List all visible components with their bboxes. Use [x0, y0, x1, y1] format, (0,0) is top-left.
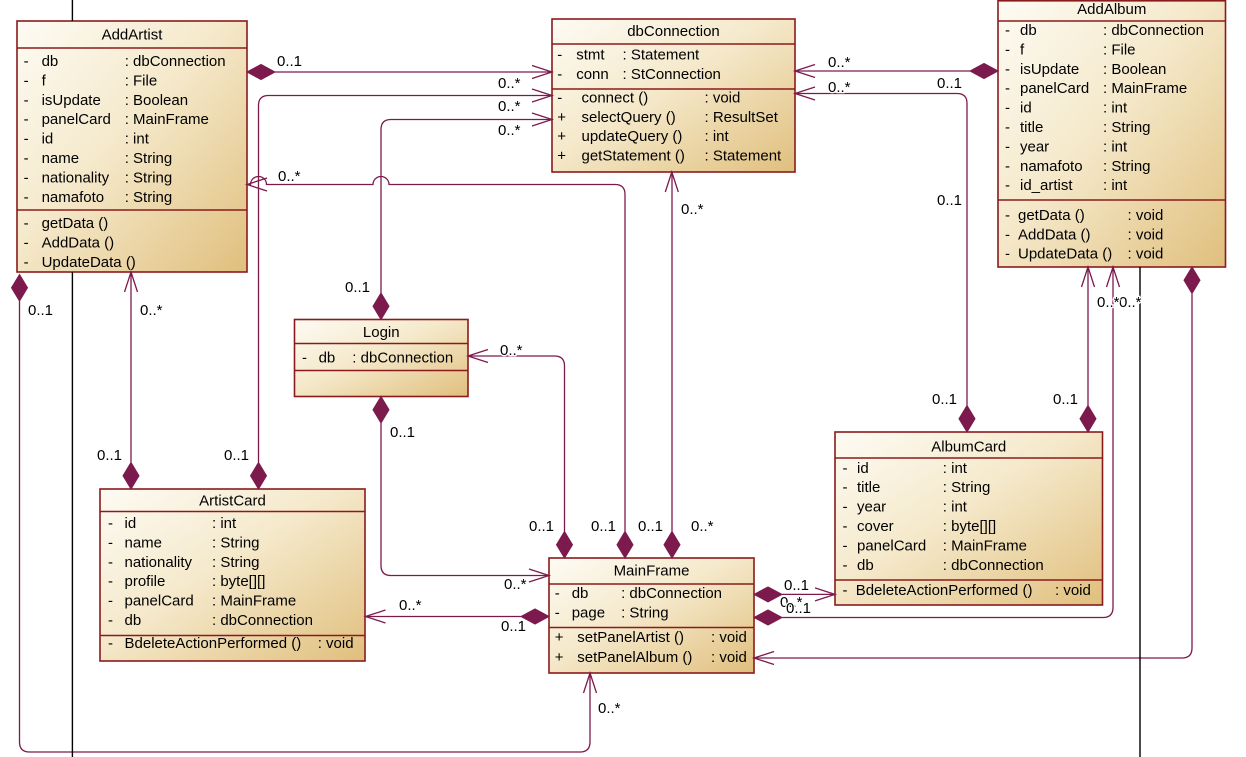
- svg-text:+: +: [555, 649, 564, 666]
- svg-text:: MainFrame: : MainFrame: [943, 537, 1027, 554]
- svg-text:: String: : String: [125, 150, 173, 167]
- svg-text:: Statement: : Statement: [623, 47, 701, 64]
- svg-text:id: id: [1020, 100, 1032, 117]
- svg-text:: void: : void: [711, 649, 747, 666]
- svg-text:0..1: 0..1: [784, 577, 809, 594]
- svg-text:connect (): connect (): [582, 90, 649, 107]
- svg-text:AlbumCard: AlbumCard: [931, 439, 1006, 456]
- svg-text:-: -: [557, 66, 562, 83]
- svg-text:0..1: 0..1: [277, 53, 302, 70]
- svg-text:0..*: 0..*: [498, 122, 521, 139]
- svg-text:namafoto: namafoto: [42, 189, 105, 206]
- svg-text:nationality: nationality: [42, 169, 110, 186]
- svg-text:0..1: 0..1: [591, 518, 616, 535]
- svg-text:-: -: [1005, 177, 1010, 194]
- svg-text:: int: : int: [1103, 177, 1128, 194]
- svg-text:: int: : int: [943, 499, 968, 516]
- svg-text:: byte[][]: : byte[][]: [212, 573, 265, 590]
- svg-text:: int: : int: [125, 131, 150, 148]
- svg-text:-: -: [108, 554, 113, 571]
- svg-text:-: -: [843, 460, 848, 477]
- svg-text:: void: : void: [1128, 246, 1164, 263]
- svg-text:year: year: [1020, 138, 1049, 155]
- svg-text:+: +: [557, 128, 566, 145]
- svg-text:: dbConnection: : dbConnection: [1103, 22, 1204, 39]
- svg-text:: int: : int: [1103, 100, 1128, 117]
- svg-text:: ResultSet: : ResultSet: [705, 109, 779, 126]
- svg-text:-: -: [24, 169, 29, 186]
- svg-text:updateQuery (): updateQuery (): [582, 128, 683, 145]
- svg-text:: String: : String: [943, 479, 991, 496]
- svg-text:-: -: [1005, 138, 1010, 155]
- svg-text:0..*: 0..*: [681, 201, 704, 218]
- svg-text:year: year: [857, 499, 886, 516]
- svg-text:-: -: [843, 479, 848, 496]
- svg-text:-: -: [1005, 246, 1010, 263]
- svg-text:0..*: 0..*: [504, 576, 527, 593]
- svg-text:: void: : void: [318, 635, 354, 652]
- svg-text:setPanelArtist (): setPanelArtist (): [577, 629, 684, 646]
- svg-text:: String: : String: [125, 169, 173, 186]
- svg-text:panelCard: panelCard: [1020, 80, 1089, 97]
- svg-text:0..*: 0..*: [498, 98, 521, 115]
- svg-text:0..1: 0..1: [390, 424, 415, 441]
- svg-text:: byte[][]: : byte[][]: [943, 518, 996, 535]
- svg-text:: dbConnection: : dbConnection: [943, 557, 1044, 574]
- svg-text:+: +: [557, 147, 566, 164]
- svg-text:: MainFrame: : MainFrame: [125, 111, 209, 128]
- svg-text:-: -: [24, 234, 29, 251]
- svg-text:0..1: 0..1: [937, 192, 962, 209]
- svg-text:: File: : File: [125, 72, 158, 89]
- svg-text:-: -: [1005, 119, 1010, 136]
- svg-text:getData (): getData (): [1018, 207, 1085, 224]
- svg-text:: void: : void: [1128, 226, 1164, 243]
- svg-text:: void: : void: [1128, 207, 1164, 224]
- svg-text:: File: : File: [1103, 41, 1136, 58]
- svg-text:: Boolean: : Boolean: [1103, 61, 1166, 78]
- svg-text:name: name: [125, 534, 163, 551]
- svg-text:-: -: [557, 90, 562, 107]
- svg-text:-: -: [1005, 22, 1010, 39]
- svg-text:: int: : int: [212, 515, 237, 532]
- svg-text:title: title: [1020, 119, 1043, 136]
- svg-text:-: -: [108, 534, 113, 551]
- svg-text:-: -: [24, 215, 29, 232]
- svg-text:Login: Login: [363, 324, 400, 341]
- svg-text:-: -: [843, 499, 848, 516]
- svg-text:+: +: [555, 629, 564, 646]
- svg-text:db: db: [42, 53, 59, 70]
- svg-text:-: -: [843, 518, 848, 535]
- svg-text:: String: : String: [212, 554, 260, 571]
- svg-text:namafoto: namafoto: [1020, 158, 1083, 175]
- svg-text:0..1: 0..1: [1053, 391, 1078, 408]
- svg-text:-: -: [1005, 226, 1010, 243]
- svg-text:-: -: [843, 582, 848, 599]
- svg-text:0..1: 0..1: [529, 518, 554, 535]
- svg-text:0..*: 0..*: [500, 342, 523, 359]
- svg-text:ArtistCard: ArtistCard: [199, 492, 266, 509]
- svg-text:0..1: 0..1: [786, 600, 811, 617]
- svg-text:db: db: [125, 612, 142, 629]
- svg-text:-: -: [24, 92, 29, 109]
- svg-text:0..*: 0..*: [399, 597, 422, 614]
- svg-text:+: +: [557, 109, 566, 126]
- svg-text:0..1: 0..1: [224, 447, 249, 464]
- svg-text:: StConnection: : StConnection: [623, 66, 721, 83]
- svg-text:0..*: 0..*: [828, 54, 851, 71]
- svg-text:-: -: [1005, 100, 1010, 117]
- svg-text:selectQuery (): selectQuery (): [582, 109, 676, 126]
- svg-text:0..1: 0..1: [28, 302, 53, 319]
- svg-text:panelCard: panelCard: [857, 537, 926, 554]
- svg-text:-: -: [1005, 207, 1010, 224]
- svg-text:id: id: [125, 515, 137, 532]
- svg-text:0..*: 0..*: [598, 700, 621, 717]
- svg-text:: Boolean: : Boolean: [125, 92, 188, 109]
- svg-text:-: -: [108, 612, 113, 629]
- svg-text:-: -: [302, 350, 307, 367]
- svg-text:AddData (): AddData (): [42, 234, 115, 251]
- svg-text:0..*: 0..*: [1119, 294, 1142, 311]
- svg-text:-: -: [24, 53, 29, 70]
- svg-text:0..*: 0..*: [278, 168, 301, 185]
- svg-text:-: -: [557, 47, 562, 64]
- svg-text:-: -: [555, 585, 560, 602]
- svg-text:-: -: [108, 573, 113, 590]
- svg-text:: MainFrame: : MainFrame: [212, 593, 296, 610]
- svg-text:-: -: [1005, 61, 1010, 78]
- svg-text:db: db: [319, 350, 336, 367]
- svg-text:UpdateData (): UpdateData (): [1018, 246, 1112, 263]
- svg-text:: void: : void: [711, 629, 747, 646]
- svg-text:BdeleteActionPerformed (): BdeleteActionPerformed (): [856, 582, 1033, 599]
- svg-text:id: id: [42, 131, 54, 148]
- svg-text:: String: : String: [621, 605, 669, 622]
- svg-text:AddArtist: AddArtist: [102, 26, 164, 43]
- svg-text:0..*: 0..*: [140, 302, 163, 319]
- svg-text:BdeleteActionPerformed (): BdeleteActionPerformed (): [125, 635, 302, 652]
- svg-text:: void: : void: [1055, 582, 1091, 599]
- svg-text:-: -: [843, 537, 848, 554]
- svg-text:0..*: 0..*: [498, 75, 521, 92]
- svg-text:profile: profile: [125, 573, 166, 590]
- svg-text:getStatement (): getStatement (): [582, 147, 685, 164]
- svg-text:0..1: 0..1: [97, 447, 122, 464]
- svg-text:MainFrame: MainFrame: [614, 562, 690, 579]
- svg-text:-: -: [1005, 158, 1010, 175]
- svg-text:db: db: [572, 585, 589, 602]
- svg-text:-: -: [24, 189, 29, 206]
- svg-text:: int: : int: [943, 460, 968, 477]
- svg-text:setPanelAlbum (): setPanelAlbum (): [577, 649, 692, 666]
- svg-text:: dbConnection: : dbConnection: [212, 612, 313, 629]
- svg-text:: dbConnection: : dbConnection: [621, 585, 722, 602]
- svg-text:title: title: [857, 479, 880, 496]
- svg-text:0..1: 0..1: [638, 518, 663, 535]
- svg-text:dbConnection: dbConnection: [627, 23, 720, 40]
- svg-text:0..*: 0..*: [1097, 294, 1120, 311]
- svg-text:0..*: 0..*: [828, 79, 851, 96]
- svg-text:0..*: 0..*: [691, 518, 714, 535]
- svg-text:: String: : String: [1103, 119, 1151, 136]
- svg-text:AddAlbum: AddAlbum: [1077, 1, 1146, 18]
- svg-text:0..1: 0..1: [501, 618, 526, 635]
- svg-text:-: -: [24, 254, 29, 271]
- svg-text:-: -: [24, 131, 29, 148]
- svg-text:db: db: [857, 557, 874, 574]
- svg-text:: int: : int: [1103, 138, 1128, 155]
- svg-text:-: -: [108, 593, 113, 610]
- svg-text:id_artist: id_artist: [1020, 177, 1073, 194]
- svg-text:nationality: nationality: [125, 554, 193, 571]
- svg-text:: String: : String: [212, 534, 260, 551]
- svg-text:isUpdate: isUpdate: [1020, 61, 1079, 78]
- svg-text:: void: : void: [705, 90, 741, 107]
- svg-text:AddData (): AddData (): [1018, 226, 1091, 243]
- svg-text:getData (): getData (): [42, 215, 109, 232]
- svg-text:cover: cover: [857, 518, 894, 535]
- svg-text:db: db: [1020, 22, 1037, 39]
- svg-text:: String: : String: [125, 189, 173, 206]
- svg-text:UpdateData (): UpdateData (): [42, 254, 136, 271]
- svg-text:-: -: [24, 150, 29, 167]
- svg-text:-: -: [24, 111, 29, 128]
- svg-text:-: -: [1005, 80, 1010, 97]
- svg-text:panelCard: panelCard: [42, 111, 111, 128]
- svg-text:-: -: [1005, 41, 1010, 58]
- svg-text:-: -: [24, 72, 29, 89]
- svg-text:: String: : String: [1103, 158, 1151, 175]
- svg-text:: Statement: : Statement: [705, 147, 783, 164]
- svg-text:isUpdate: isUpdate: [42, 92, 101, 109]
- svg-text:0..1: 0..1: [932, 391, 957, 408]
- svg-text:page: page: [572, 605, 605, 622]
- svg-text:-: -: [108, 635, 113, 652]
- svg-text:name: name: [42, 150, 80, 167]
- svg-text:-: -: [555, 605, 560, 622]
- svg-text:: int: : int: [705, 128, 730, 145]
- svg-text:: dbConnection: : dbConnection: [352, 350, 453, 367]
- svg-text:stmt: stmt: [576, 47, 605, 64]
- svg-text:-: -: [843, 557, 848, 574]
- svg-text:0..1: 0..1: [937, 75, 962, 92]
- svg-text:conn: conn: [576, 66, 609, 83]
- svg-text:id: id: [857, 460, 869, 477]
- svg-text:: MainFrame: : MainFrame: [1103, 80, 1187, 97]
- svg-text:: dbConnection: : dbConnection: [125, 53, 226, 70]
- svg-text:0..1: 0..1: [345, 279, 370, 296]
- svg-text:-: -: [108, 515, 113, 532]
- svg-text:panelCard: panelCard: [125, 593, 194, 610]
